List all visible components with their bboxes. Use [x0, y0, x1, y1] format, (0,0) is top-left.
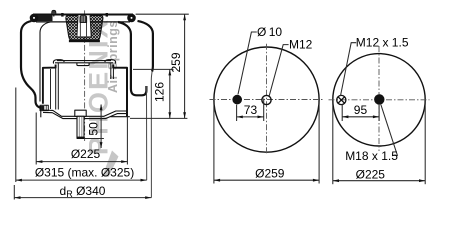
dim 259 line	[184, 14, 186, 118]
hole d10	[232, 95, 242, 105]
dim 95	[342, 104, 379, 121]
piston inner wall left	[55, 65, 57, 110]
ext d340 left	[13, 185, 15, 200]
ext d225 right	[126, 116, 128, 164]
bellows curl right inner	[146, 86, 148, 180]
leader M12x1.5	[341, 43, 357, 96]
svg-text:Ø315 (max. Ø325): Ø315 (max. Ø325)	[35, 165, 134, 179]
bumper recess	[77, 15, 91, 37]
piston inner wall right	[110, 63, 112, 79]
bellows inner left	[40, 22, 51, 102]
bottom stud shaft	[77, 116, 84, 138]
svg-text:95: 95	[354, 103, 368, 117]
circle	[214, 47, 319, 152]
arrows d340	[14, 196, 20, 199]
piston top plate	[57, 60, 111, 62]
dim 50 line	[100, 105, 102, 149]
leader M12	[269, 45, 288, 96]
top plate top line	[33, 14, 133, 16]
dim d225 line	[36, 161, 127, 163]
svg-text:126: 126	[153, 82, 167, 102]
bellows outer+fold right	[138, 21, 153, 72]
arrows 50	[100, 104, 103, 110]
piston center boss	[77, 63, 89, 66]
plate rivet tick right	[106, 13, 108, 17]
piston step left	[43, 65, 56, 104]
circle	[333, 54, 425, 146]
bellows fold right	[118, 22, 146, 95]
piston bead bump left	[53, 60, 64, 64]
ext line stud end	[84, 138, 104, 140]
arrows d225	[36, 160, 42, 163]
leader d10	[238, 32, 257, 94]
ext d315/340 left	[15, 88, 17, 183]
svg-text:Air Springs: Air Springs	[106, 20, 120, 93]
arrows 259	[183, 14, 186, 20]
centerline horizontal	[210, 99, 324, 101]
dim d225	[333, 102, 425, 184]
plate rivet tick left	[61, 13, 63, 17]
dim 73	[237, 99, 264, 122]
top plate solid section	[33, 15, 53, 21]
stud on top plate	[52, 10, 56, 14]
svg-text:Ø225: Ø225	[71, 147, 101, 161]
svg-text:Ø225: Ø225	[356, 167, 386, 181]
dim d315 line	[16, 179, 147, 181]
rolled edge left	[30, 14, 39, 23]
leader M18x1.5	[381, 104, 398, 155]
bolt in recess	[80, 16, 87, 23]
svg-text:73: 73	[244, 103, 258, 117]
bellows curl right outer	[150, 72, 153, 198]
svg-text:M12: M12	[289, 37, 313, 51]
clamp left	[40, 105, 48, 110]
svg-text:Ø 10: Ø 10	[257, 25, 282, 39]
centerline vertical	[378, 46, 380, 151]
arrows 126	[168, 69, 171, 75]
ext piston top to 126	[133, 68, 174, 70]
dim 126 line	[169, 69, 171, 118]
bellows outer left	[21, 21, 46, 108]
ext bottom to 126/259	[130, 117, 187, 119]
bottom dish	[43, 106, 127, 116]
bottom stud nut	[75, 110, 86, 116]
svg-text:M18 x 1.5: M18 x 1.5	[345, 149, 398, 163]
svg-text:Ø259: Ø259	[255, 167, 285, 181]
hole M12x1.5	[337, 95, 346, 104]
piston step right	[113, 65, 127, 117]
arrows d315	[16, 179, 22, 182]
hole M18x1.5	[374, 94, 384, 104]
dim d340 line	[14, 197, 151, 199]
svg-text:259: 259	[169, 52, 183, 72]
centerline horizontal	[329, 99, 430, 101]
watermark swoosh	[103, 151, 119, 178]
centerline	[84, 10, 86, 141]
bumper bottom bar	[69, 40, 100, 43]
rolled edge right	[127, 14, 136, 23]
ext top plate to 259	[136, 13, 189, 15]
piston skirt companion line left	[50, 69, 52, 109]
top plate bottom line	[36, 21, 130, 23]
piston bead bump right	[105, 60, 116, 64]
ext d225 left	[35, 113, 37, 165]
svg-text:M12 x 1.5: M12 x 1.5	[356, 35, 409, 49]
svg-text:50: 50	[87, 122, 101, 136]
centerline vertical	[266, 44, 268, 156]
hole M12	[262, 95, 271, 104]
dim d259	[214, 102, 319, 184]
